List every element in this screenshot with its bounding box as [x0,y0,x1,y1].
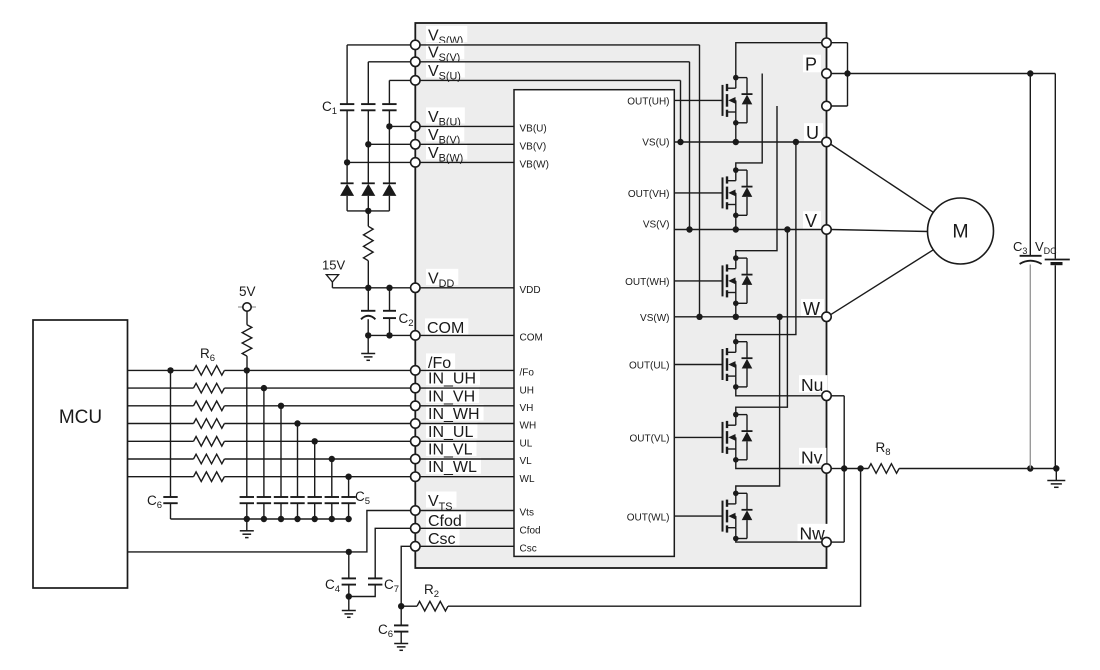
transistor Q5 VL [723,412,753,463]
resistor R6 (IN_UH) [194,383,225,393]
label COM [425,318,468,336]
module pin P1 [822,38,831,47]
label V [803,211,821,231]
module pin /Fo [411,366,420,375]
svg-text:VS(W): VS(W) [640,313,669,324]
capacitor C3 [1020,74,1042,469]
wire pin to IC [420,440,514,442]
wire OUT(WH) gate [674,280,722,282]
wire Csc [398,546,411,609]
wire MCU line IN_UH [128,385,411,391]
wire Q2 source to V [735,215,737,229]
module pin VS(U) [411,76,420,85]
svg-text:WH: WH [520,421,537,432]
svg-text:VS(U): VS(U) [642,138,669,149]
wire bootstrap W leg [346,45,348,183]
label IN_VL [426,440,476,458]
svg-text:VS(V): VS(V) [643,220,670,231]
resistor R6 (IN_VH) [194,401,225,411]
wire V row [674,226,822,232]
wire Cfod [375,528,410,578]
svg-text:IN_UH: IN_UH [428,371,476,388]
wire Q5 drain to V [736,230,788,415]
resistor R6 (IN_WL) [194,472,225,482]
svg-text:UL: UL [520,439,533,450]
label IN_VH [426,387,479,405]
svg-text:Nv: Nv [801,448,823,468]
svg-text:WL: WL [520,474,535,485]
wire MCU line IN_WH [128,420,411,426]
capacitor C1 (W) [340,104,354,110]
diode D3 bootstrap (U) [382,183,396,211]
wire shunt node [844,465,868,471]
wire pin to IC [420,423,514,425]
svg-text:V: V [805,211,817,231]
wire diode anode rail [347,208,389,214]
svg-text:Cfod: Cfod [520,526,541,537]
label IN_UH [426,369,480,387]
ground at C5 rail [240,519,254,538]
resistor R8 [868,464,899,474]
module pin Nv [822,464,831,473]
IC pin label UL [520,439,533,450]
module pin IN_WH [411,419,420,428]
svg-text:Nu: Nu [801,375,823,395]
capacitor C5 element 5 [308,441,322,522]
wire pin to IC [420,405,514,407]
ground at DC bus [1047,469,1065,488]
svg-text:W: W [803,299,820,319]
IC pin label VB(U) [520,124,547,135]
resistor R6 (IN_UL) [194,437,225,447]
label IN_WH [426,405,484,423]
IC pin label COM [520,333,543,344]
capacitor C6 [163,370,177,519]
module pin VS(W) [411,40,420,49]
wire COM [365,332,514,338]
svg-text:IN_UL: IN_UL [428,424,473,441]
wire U to motor [831,145,934,213]
label P [803,55,821,75]
transistor Q6 WL [723,491,753,542]
module pin VS(V) [411,57,420,66]
module pin IN_UH [411,383,420,392]
label VDD [426,269,458,290]
wire N bracket [831,396,847,542]
module pin Cfod [411,524,420,533]
module pin W [822,312,831,321]
IC pin label VS(W) [640,313,669,324]
IC pin label VL [520,456,533,467]
wire P bracket [831,43,851,106]
module pin VDD [411,283,420,292]
module pin Nw [822,537,831,546]
module pin VB(W) [411,158,420,167]
IC pin label OUT(UH) [627,97,669,108]
wire OUT(WL) gate [674,515,722,517]
label IN_WL [426,458,481,476]
IC pin label WL [520,474,535,485]
IC pin label VS(U) [642,138,669,149]
svg-text:UH: UH [520,385,534,396]
label IN_UL [426,422,477,440]
supply 5V [238,284,256,325]
svg-text:COM: COM [520,333,543,344]
module pin P [822,69,831,78]
svg-text:Csc: Csc [520,544,537,555]
driver IC U1 box [514,90,674,557]
capacitor C5 element 3 [274,406,288,522]
wire VS(U) rail [389,80,680,142]
IC pin label Csc [520,544,537,555]
label C6 [147,493,162,511]
transistor Q2 VH [723,167,753,218]
svg-text:15V: 15V [322,258,345,273]
IC pin label /Fo [520,368,535,379]
capacitor C5 element 2 [257,388,271,522]
wire MCU line IN_UL [128,438,411,444]
svg-text:VH: VH [520,403,534,414]
supply 15V [322,258,345,288]
label Nw [798,524,829,544]
capacitor C2 ceramic [383,288,396,336]
module pin V [822,225,831,234]
wire OUT(UL) gate [674,364,722,366]
wire R8 to ground [899,465,1059,471]
wire R2 to shunt node [448,469,861,607]
svg-text:Vts: Vts [520,508,534,519]
wire pin to IC [420,476,514,478]
wire MCU line IN_VL [128,456,411,462]
module pin IN_WL [411,472,420,481]
label VS(U) [426,61,465,82]
IC pin label VB(W) [520,160,549,171]
module pin VTS [411,506,420,515]
ground at COM [361,335,375,360]
diode D1 bootstrap (W) [340,183,354,211]
wire Q1 source to U [735,123,737,142]
capacitor C7 [349,578,383,596]
wire MCU line /Fo [128,367,411,373]
wire MCU line IN_WL [128,474,411,480]
label C5 [355,489,370,507]
transistor Q1 UH [723,75,753,126]
transistor Q4 UL [723,339,753,390]
resistor R6 (IN_VL) [194,454,225,464]
module pin VB(V) [411,140,420,149]
svg-text:OUT(WH): OUT(WH) [625,277,669,288]
svg-text:5V: 5V [239,284,256,299]
resistor R6 (IN_WH) [194,419,225,429]
label R8 [876,440,891,458]
wire OUT(VH) gate [674,192,722,194]
svg-text:M: M [952,221,968,243]
label C4 [325,577,340,595]
wire VDD [332,285,514,291]
module pin IN_VL [411,454,420,463]
label VB(U) [426,107,465,128]
wire Q6 source to Nw [736,539,822,543]
label C2 [399,311,414,329]
wire Q4 drain to U [736,142,796,342]
wire pin to IC [420,527,514,529]
wire Q5 source to Nv [736,460,822,469]
wire pin to IC [420,545,514,547]
module pin IN_UL [411,437,420,446]
label /Fo [426,353,455,371]
svg-text:IN_WH: IN_WH [428,406,480,423]
resistor bootstrap supply [364,211,374,288]
svg-text:VL: VL [520,456,533,467]
wire VB(U) [386,123,514,129]
wire VS(W) rail [347,45,699,317]
MCU box [33,320,128,588]
module pin VB(U) [411,122,420,131]
wire P to VDC [848,70,1056,76]
module pin P2 [822,101,831,110]
label VS(W) [426,26,467,47]
wire VB(V) [365,141,514,147]
wire W row [674,314,822,320]
capacitor C1 (V) [361,104,375,110]
IC pin label Vts [520,508,534,519]
wire VB(W) [344,159,514,165]
capacitor C5 element 7 [341,477,355,523]
label Nv [799,448,826,468]
label W [801,299,824,319]
svg-text:COM: COM [427,320,464,337]
resistor R7 pull-up [242,325,252,371]
svg-text:VB(V): VB(V) [520,142,547,153]
IC pin label VB(V) [520,142,547,153]
svg-text:Cfod: Cfod [428,513,462,530]
IC pin label UH [520,385,534,396]
label VDC [1035,239,1057,256]
capacitor C2 electrolytic [361,288,375,336]
wire pin to IC [420,387,514,389]
IC pin label OUT(WH) [625,277,669,288]
svg-text:IN_WL: IN_WL [428,459,477,476]
IC pin label OUT(VH) [628,189,670,200]
wire pin to IC [420,458,514,460]
IC pin label WH [520,421,537,432]
svg-text:Csc: Csc [428,531,456,548]
wire MCU to VTS [128,511,411,556]
motor M [928,198,994,264]
wire MCU line IN_VH [128,403,411,409]
label Nu [799,375,827,395]
module pin Nu [822,391,831,400]
resistor R6 (/Fo) [194,366,225,376]
module pin U [822,137,831,146]
IC pin label VH [520,403,534,414]
module pin COM [411,331,420,340]
label VB(V) [426,125,464,146]
wire Q3 drain to P rail [736,106,777,258]
wire OUT(VL) gate [674,436,722,438]
svg-text:OUT(UL): OUT(UL) [629,361,670,372]
label Csc [426,529,460,547]
battery VDC [1045,74,1070,469]
IC pin label OUT(UL) [629,361,670,372]
svg-text:OUT(WL): OUT(WL) [627,512,670,523]
svg-text:VDD: VDD [520,285,541,296]
svg-text:VB(U): VB(U) [520,124,547,135]
capacitor C4 [342,552,356,600]
wire V to motor [831,230,928,232]
svg-text:U: U [806,123,819,143]
wire bootstrap U leg [388,80,390,183]
label VB(W) [426,143,467,164]
label C8 [378,622,393,640]
label C7 [384,577,399,595]
capacitor C1 (U) [382,104,396,110]
resistor R2 [401,601,448,611]
wire OUT(UH) gate [674,99,722,101]
IC pin label VDD [520,285,541,296]
ground at C8 [394,644,408,651]
wire W to motor [831,250,933,315]
svg-text:IN_VL: IN_VL [428,442,473,459]
IPM module outline [415,23,826,568]
label C1 [322,99,337,117]
label VTS [426,492,456,513]
wire pin to IC [420,369,514,371]
wire C5 ground rail [171,518,349,520]
IC pin label OUT(VL) [630,434,670,445]
IC pin label OUT(WL) [627,512,670,523]
wire U row [674,139,822,145]
label R2 [424,582,439,600]
wire Q1 drain to P pin [736,43,822,78]
label U [804,123,823,143]
svg-text:OUT(UH): OUT(UH) [627,97,669,108]
svg-text:/Fo: /Fo [520,368,535,379]
label VS(V) [426,43,464,64]
label C3 [1013,239,1027,256]
wire Q2 drain to P rail [736,74,762,171]
capacitor C5 element 4 [290,424,304,523]
capacitor C5 element 1 [240,370,254,522]
IC pin label VS(V) [643,220,670,231]
svg-text:P: P [805,55,817,75]
svg-text:MCU: MCU [59,407,102,428]
wire VS(V) rail [368,62,689,230]
svg-text:IN_VH: IN_VH [428,388,475,405]
diode D2 bootstrap (V) [361,183,375,211]
svg-text:OUT(VH): OUT(VH) [628,189,670,200]
module pin Csc [411,542,420,551]
wire pin to IC [420,510,514,512]
wire bootstrap V leg [367,62,369,184]
capacitor C8 [394,606,408,643]
svg-text:VB(W): VB(W) [520,160,549,171]
transistor Q3 WH [723,255,753,306]
IC pin label Cfod [520,526,541,537]
svg-text:OUT(VL): OUT(VL) [630,434,670,445]
ground at C4 [342,597,356,618]
module pin IN_VH [411,401,420,410]
label Cfod [426,511,466,529]
wire Q6 drain to W [736,317,780,494]
wire Q3 source to W [735,303,737,317]
label R6 [200,346,215,364]
wire Q4 source to Nu [736,387,822,396]
capacitor C5 element 6 [325,459,339,522]
